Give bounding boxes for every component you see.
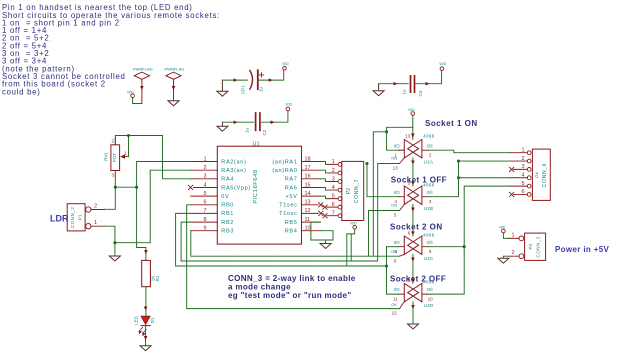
svg-text:9: 9 — [203, 226, 206, 232]
svg-text:U1: U1 — [253, 141, 260, 147]
CONN_7 pin numbers — [332, 159, 335, 216]
wire U1 pin10 down to ground rail — [320, 231, 333, 240]
svg-text:PWRFLAG: PWRFLAG — [165, 67, 185, 72]
junction divider at RA2 riser — [135, 186, 138, 189]
svg-text:VDD: VDD — [408, 108, 415, 112]
U1 right pin stubs 18-10 — [302, 162, 321, 231]
svg-text:1u: 1u — [259, 86, 264, 92]
power flag PWR2 — [165, 67, 185, 101]
svg-text:RB1: RB1 — [221, 211, 234, 217]
wire U2C to U2D — [412, 254, 414, 283]
svg-text:14: 14 — [305, 191, 311, 197]
ground left of C3 — [373, 84, 384, 96]
ground left of C2 — [217, 122, 228, 131]
junction at CONN_6 pin2 feed — [457, 160, 460, 163]
svg-text:OK: OK — [391, 302, 397, 307]
svg-text:4: 4 — [203, 182, 206, 188]
no-connect X on CONN_7 pin 6 — [323, 205, 327, 209]
junction ground rail — [113, 241, 116, 244]
ground symbol below U2D — [408, 324, 419, 329]
capacitor CP1 (polarized) — [241, 70, 264, 94]
svg-text:Socket 1 ON: Socket 1 ON — [425, 119, 478, 128]
RV1 top pin — [114, 138, 116, 145]
analog switch U2C — [391, 230, 435, 263]
wire VDD to P3 pin1 — [503, 233, 509, 239]
junction at CONN_6 pin4 feed — [457, 176, 460, 179]
wire LED to ground — [145, 326, 147, 346]
junction RB2 net at U2B riser — [365, 162, 368, 165]
svg-text:3: 3 — [332, 176, 335, 182]
svg-text:T1sec: T1sec — [279, 203, 297, 209]
wire ground rail to RA3 — [115, 170, 191, 243]
wire RB0 to U2D control — [187, 205, 400, 309]
P1 pin circles — [86, 207, 91, 212]
svg-text:12: 12 — [405, 278, 411, 283]
ground rail wire below CONN_7 — [311, 240, 333, 244]
no-connect X on CONN_7 pin 7 — [323, 214, 327, 218]
svg-text:2: 2 — [203, 165, 206, 171]
wire U2A input feed corner — [373, 127, 413, 256]
analog switch U2A — [391, 133, 435, 170]
U1 right pin numbers — [305, 156, 311, 231]
wire U2D input feed riser — [387, 247, 399, 294]
CONN_7 pin stubs — [327, 164, 338, 215]
ground symbol below CONN_7 — [320, 244, 331, 249]
wire U2C output joins U2D riser — [428, 246, 464, 248]
wire VDD to U2A — [412, 115, 414, 139]
svg-text:CONN_2: CONN_2 — [535, 236, 540, 258]
svg-text:Socket 1 OFF: Socket 1 OFF — [391, 176, 447, 185]
P3 pin stubs — [509, 238, 519, 256]
ground symbol left area — [109, 256, 120, 261]
svg-text:RA4: RA4 — [221, 177, 234, 183]
power flag PWR1 — [133, 67, 153, 104]
svg-text:RA3(an): RA3(an) — [221, 168, 246, 174]
svg-text:RA5(Vpp): RA5(Vpp) — [221, 185, 251, 191]
svg-text:12: 12 — [305, 208, 311, 214]
no-connect X on pin 12 — [319, 211, 323, 215]
svg-text:I/O: I/O — [394, 190, 401, 195]
wire from PWR1 to VDD — [133, 98, 142, 104]
wire U2B to U2C — [412, 204, 414, 236]
svg-text:1u: 1u — [244, 127, 249, 133]
wire C3 to VDD — [416, 71, 442, 84]
wire U2C input feed — [387, 246, 399, 248]
svg-text:CONN_6: CONN_6 — [542, 163, 548, 187]
svg-text:O/I: O/I — [427, 240, 433, 245]
wire gnd to C3 — [379, 83, 409, 85]
svg-text:6: 6 — [521, 189, 524, 195]
svg-text:O/I: O/I — [427, 143, 433, 148]
ground symbol below LED — [140, 346, 151, 351]
svg-text:RV1: RV1 — [103, 152, 108, 161]
svg-text:(an)RA1: (an)RA1 — [272, 159, 297, 165]
svg-text:2: 2 — [512, 250, 515, 256]
RV1 bottom pin — [114, 171, 116, 178]
svg-text:4: 4 — [521, 173, 524, 179]
wire U1 pin15 to CONN_7 pin4 — [320, 188, 328, 191]
connector P3 CONN_2 (power) body — [525, 233, 546, 260]
svg-text:4: 4 — [332, 185, 335, 191]
P1 pin stubs — [91, 210, 105, 227]
svg-text:(an)RA0: (an)RA0 — [272, 168, 297, 174]
power VDD at C2 — [285, 102, 292, 110]
svg-text:T1osc: T1osc — [279, 211, 297, 217]
wire U1 pin11 down to ground rail — [311, 222, 320, 240]
svg-text:eg "test mode" or "run mode": eg "test mode" or "run mode" — [228, 291, 352, 300]
analog switch U2B — [391, 180, 435, 217]
RV1 wiper arrow — [121, 155, 128, 158]
ground left of CP1 — [217, 80, 228, 96]
wire VDD below CONN_7 to switch feeds — [347, 229, 355, 266]
U1 left pin names — [221, 159, 251, 234]
note CONN_3 text — [228, 274, 356, 300]
IC U1 body — [217, 146, 301, 244]
svg-text:O/I: O/I — [427, 287, 433, 292]
wire C2 to VDD — [262, 111, 288, 122]
wire CP1 to VDD — [258, 71, 284, 81]
svg-text:17: 17 — [305, 165, 311, 171]
svg-text:2: 2 — [332, 168, 335, 174]
junction U2C/U2D riser — [463, 245, 466, 248]
svg-text:4066: 4066 — [423, 232, 435, 237]
svg-text:6: 6 — [203, 200, 206, 206]
no-connect X on pin 13 — [319, 203, 323, 207]
svg-text:RA6: RA6 — [285, 185, 298, 191]
svg-text:R1: R1 — [155, 275, 160, 281]
svg-text:1: 1 — [332, 159, 335, 165]
svg-text:ON: ON — [391, 249, 397, 254]
junction pot top / wiper — [127, 134, 130, 137]
svg-text:5: 5 — [203, 191, 206, 197]
svg-text:+5V: +5V — [286, 194, 298, 200]
svg-text:U2B: U2B — [424, 206, 434, 211]
svg-text:1: 1 — [521, 148, 524, 154]
junction line A — [385, 130, 388, 133]
svg-text:RA7: RA7 — [285, 177, 298, 183]
svg-text:1u: 1u — [402, 89, 407, 95]
svg-text:13: 13 — [405, 133, 411, 138]
U1 left pin stubs 1-9 — [191, 162, 218, 231]
svg-text:4066: 4066 — [423, 133, 435, 138]
svg-text:VDD: VDD — [350, 222, 357, 226]
svg-text:6: 6 — [332, 202, 335, 208]
junction divider at LDR riser — [114, 186, 117, 189]
potentiometer RV1 body — [111, 145, 120, 171]
svg-text:ON: ON — [391, 203, 397, 208]
svg-text:13: 13 — [393, 166, 399, 171]
svg-text:5: 5 — [521, 181, 524, 187]
svg-text:VDD: VDD — [439, 62, 446, 66]
svg-text:RA2(an): RA2(an) — [221, 159, 246, 165]
svg-text:CONN_2: CONN_2 — [70, 207, 75, 229]
svg-text:12: 12 — [392, 311, 398, 316]
svg-text:LDR: LDR — [50, 214, 69, 224]
svg-text:P4: P4 — [535, 172, 540, 178]
svg-text:15: 15 — [305, 182, 311, 188]
svg-text:O/I: O/I — [427, 190, 433, 195]
no-connect X on pin 4 — [188, 185, 192, 189]
svg-text:U2D: U2D — [424, 303, 434, 308]
svg-text:PIC16F648: PIC16F648 — [253, 169, 259, 203]
wire gnd to CP1 — [222, 79, 247, 81]
U1 left pin numbers — [203, 156, 206, 231]
svg-text:16: 16 — [305, 174, 311, 180]
svg-text:VDD: VDD — [282, 62, 289, 66]
CONN_6 pin circles — [527, 151, 531, 197]
svg-text:Socket 2 ON: Socket 2 ON — [390, 223, 443, 232]
svg-text:I/O: I/O — [394, 143, 401, 148]
svg-text:U2C: U2C — [424, 256, 434, 261]
wire U1 pin17 to CONN_7 pin2 — [320, 170, 328, 173]
wire pot top rail — [115, 136, 191, 179]
wire gnd to C2 — [222, 121, 253, 123]
svg-text:C2: C2 — [262, 129, 267, 135]
wire U2A output to CONN_6 pin1 — [428, 150, 510, 153]
svg-text:10: 10 — [428, 297, 434, 302]
notes text block top-left — [2, 3, 220, 96]
svg-text:11: 11 — [305, 217, 311, 223]
power VDD at CP1 — [282, 62, 289, 70]
CONN_7 pin circles 1-7 — [338, 163, 342, 218]
analog switch U2D — [391, 278, 435, 316]
resistor R1 body — [142, 260, 151, 286]
wire LDR pin1 to ground rail — [105, 226, 115, 243]
power VDD symbol (left of PWR1) — [127, 90, 134, 97]
svg-text:13: 13 — [305, 200, 311, 206]
pin end tick marks — [234, 79, 429, 123]
connector P4 CONN_6 body — [532, 149, 550, 200]
svg-text:LED: LED — [134, 315, 139, 325]
wire stem to ground — [114, 243, 116, 256]
svg-text:11: 11 — [393, 297, 398, 302]
svg-text:18: 18 — [305, 156, 311, 162]
svg-text:2: 2 — [521, 156, 524, 162]
wire RB3 to U2B control — [191, 211, 400, 257]
svg-text:PWRFLAG: PWRFLAG — [133, 67, 153, 72]
junction input riser at RB1 rail — [385, 264, 388, 267]
svg-text:RB0: RB0 — [221, 203, 234, 209]
svg-text:2: 2 — [94, 204, 97, 210]
svg-text:RB3: RB3 — [221, 229, 234, 235]
svg-text:ON: ON — [391, 156, 397, 161]
svg-text:1: 1 — [203, 156, 206, 162]
svg-text:Power in +5V: Power in +5V — [555, 245, 610, 254]
svg-text:CONN_7: CONN_7 — [354, 179, 360, 203]
power VDD above U2A — [408, 108, 415, 115]
wire divider node (pot bottom, LDR pin2, RA2, R1) — [105, 162, 191, 261]
svg-text:10: 10 — [305, 226, 311, 232]
svg-text:P2: P2 — [346, 188, 352, 194]
power VDD below CONN_7 — [350, 222, 357, 230]
svg-text:RB2: RB2 — [221, 220, 234, 226]
svg-text:could be): could be) — [2, 87, 41, 96]
capacitor C3 — [402, 76, 424, 97]
wire U2D to ground — [412, 302, 414, 324]
svg-text:4066: 4066 — [423, 280, 435, 285]
svg-text:3: 3 — [203, 174, 206, 180]
svg-text:POT: POT — [112, 153, 117, 163]
LED D1 — [134, 315, 155, 335]
svg-text:7: 7 — [203, 208, 206, 214]
power VDD at P3 — [499, 226, 506, 233]
no-connect X on CONN_6 pin 6 — [509, 192, 513, 196]
wire U1 pin14 to CONN_7 pin5 — [320, 196, 328, 199]
power VDD at C3 — [439, 62, 446, 70]
svg-text:5: 5 — [332, 193, 335, 199]
CONN_6 pin stubs — [510, 153, 527, 195]
svg-text:CP1: CP1 — [241, 85, 246, 94]
U1 right pin names — [272, 159, 297, 234]
ground symbol at P3 — [498, 258, 509, 263]
svg-text:8: 8 — [203, 217, 206, 223]
wire RB2 to U2A control and U2B input — [181, 164, 399, 262]
svg-text:7: 7 — [332, 211, 335, 217]
capacitor C2 — [244, 113, 266, 136]
ground under PWR2 — [168, 101, 179, 106]
svg-text:4066: 4066 — [423, 182, 435, 187]
svg-text:I/O: I/O — [394, 287, 401, 292]
svg-text:P3: P3 — [528, 244, 533, 250]
svg-text:3: 3 — [521, 164, 524, 170]
wire U2D output to CONN_6 pin5 — [428, 186, 510, 294]
svg-text:VDD: VDD — [499, 226, 506, 230]
P3 pin circles — [519, 236, 524, 241]
svg-text:D1: D1 — [150, 317, 155, 323]
no-connect X on CONN_6 pin 3 — [509, 167, 513, 171]
svg-text:1: 1 — [94, 220, 97, 226]
wire P3 pin2 to ground — [503, 256, 509, 258]
wire U2A to U2B — [412, 158, 414, 186]
svg-text:0V: 0V — [221, 194, 229, 200]
svg-text:Socket 2 OFF: Socket 2 OFF — [390, 275, 446, 284]
svg-text:P1: P1 — [78, 214, 83, 220]
svg-text:RB4: RB4 — [285, 229, 298, 235]
svg-text:1: 1 — [512, 232, 515, 238]
connector P2 CONN_7 body — [342, 161, 364, 220]
svg-text:C3: C3 — [418, 90, 423, 96]
svg-text:VDD: VDD — [285, 102, 292, 106]
svg-text:RB5: RB5 — [285, 220, 298, 226]
svg-text:I/O: I/O — [394, 240, 401, 245]
wire RB1 to U2C control — [176, 213, 387, 266]
connector P1 CONN_2 (LDR) body — [67, 204, 85, 231]
CONN_6 pin numbers — [521, 148, 524, 196]
svg-text:VDD: VDD — [127, 90, 134, 94]
wire U1 pin18 to CONN_7 pin1 — [320, 162, 328, 165]
wire U2B output to CONN_6 pins 2 and 4 — [428, 161, 510, 197]
svg-text:U2A: U2A — [424, 159, 434, 164]
wire R1 to LED — [145, 287, 147, 317]
wire U1 pin16 to CONN_7 pin3 — [320, 179, 328, 182]
